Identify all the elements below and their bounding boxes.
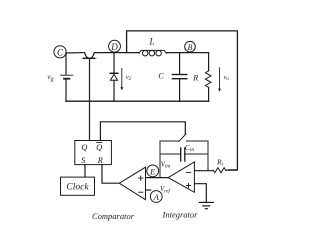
node E [147, 161, 171, 177]
wire inductor to corner (through node B) [166, 52, 208, 54]
comparator U3 [119, 167, 145, 200]
svg-text:Ri: Ri [216, 158, 224, 168]
svg-text:Q: Q [81, 142, 87, 152]
node C [54, 46, 66, 58]
integrator feedback loop with reset switch and Cin [160, 134, 208, 178]
source vg [47, 53, 73, 101]
diode D1 [110, 53, 118, 102]
ground [199, 202, 213, 208]
resistor R [192, 53, 211, 102]
svg-text:C: C [57, 47, 64, 57]
svg-text:v2: v2 [126, 74, 132, 82]
svg-text:Vint: Vint [161, 161, 171, 169]
wire overpass from switch node up over to right side [127, 31, 238, 170]
svg-text:R: R [97, 155, 104, 165]
node D [109, 40, 121, 52]
flip-flop U2 SR latch [75, 141, 112, 165]
label vo with arrow [218, 68, 229, 92]
svg-text:A: A [153, 192, 160, 202]
clock [61, 165, 95, 196]
svg-text:Comparator: Comparator [92, 211, 135, 221]
svg-text:Integrator: Integrator [162, 210, 199, 220]
transistor Q1 [82, 53, 97, 59]
capacitor C [158, 53, 187, 102]
wire transistor to inductor (through node D) [95, 52, 139, 54]
svg-text:S: S [81, 155, 86, 165]
wire bottom rail [66, 100, 209, 102]
svg-text:Vref: Vref [160, 185, 171, 194]
wire integrator - input to Ri [194, 170, 213, 172]
node A [150, 185, 171, 202]
wire integrator + input to ground [194, 184, 206, 202]
svg-text:E: E [149, 166, 156, 176]
svg-text:C: C [158, 71, 164, 81]
svg-text:vo: vo [224, 74, 230, 82]
wire comparator output to R input [102, 165, 119, 184]
wire top left from C to transistor [66, 52, 85, 54]
integrator U4 [168, 162, 194, 192]
node B [185, 41, 196, 52]
svg-text:D: D [110, 42, 118, 52]
svg-text:Q: Q [96, 142, 102, 152]
wire integrator output to comparator + input [146, 177, 169, 179]
wire Qbar output to reset switch [100, 122, 185, 141]
wire Q output up to transistor base [89, 58, 91, 141]
svg-text:L: L [148, 37, 154, 47]
wire comparator - input [146, 189, 151, 191]
inductor L [139, 37, 167, 56]
svg-text:Clock: Clock [66, 183, 89, 193]
svg-text:R: R [192, 73, 198, 82]
svg-text:Cin: Cin [185, 143, 195, 153]
resistor Ri [213, 158, 237, 173]
label v2 with arrow [120, 69, 131, 91]
svg-text:B: B [188, 43, 193, 52]
svg-text:vg: vg [47, 72, 53, 82]
